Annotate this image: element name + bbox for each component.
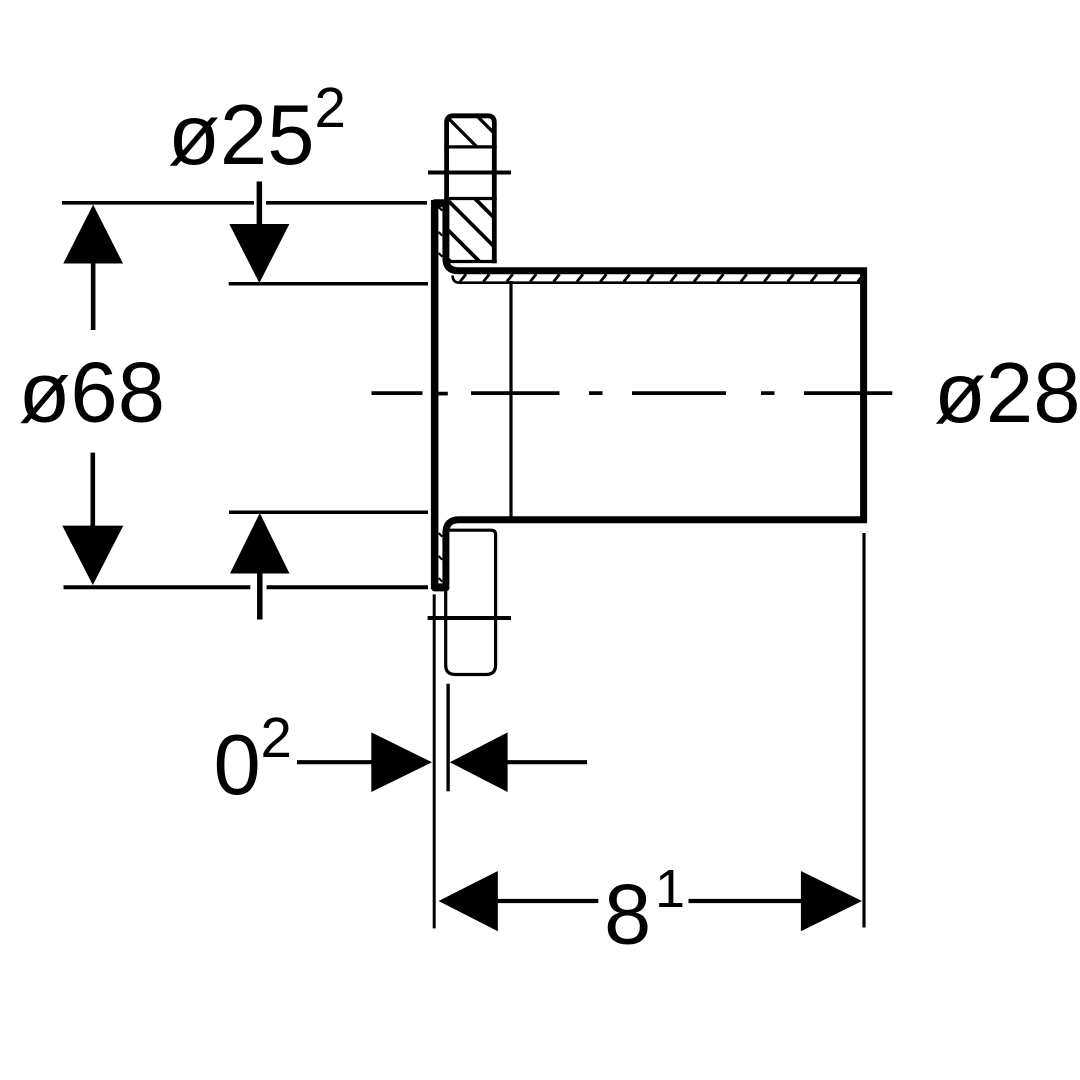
- svg-text:2: 2: [315, 76, 346, 139]
- svg-text:8: 8: [604, 868, 651, 963]
- svg-text:0: 0: [214, 718, 261, 813]
- svg-text:ø28: ø28: [934, 346, 1080, 441]
- svg-text:ø25: ø25: [168, 88, 314, 183]
- svg-text:1: 1: [655, 859, 685, 919]
- svg-text:ø68: ø68: [19, 346, 165, 441]
- svg-text:2: 2: [261, 706, 292, 769]
